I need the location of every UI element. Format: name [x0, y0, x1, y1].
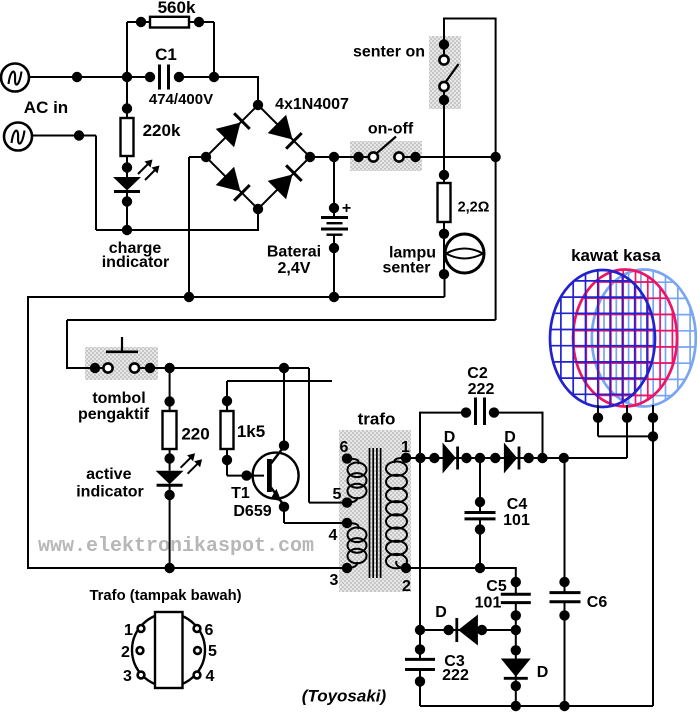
svg-text:active: active	[86, 466, 131, 483]
wire 1k5 feed from pushbutton net	[226, 381, 228, 411]
wire resistor to lamp	[443, 222, 445, 274]
node dot emitter	[279, 502, 289, 512]
wire pushbutton to 220/1k5/collector	[139, 367, 309, 369]
bridge diode bottom-left (1N4007)	[216, 167, 241, 192]
node dot 220k top	[122, 103, 132, 113]
svg-text:D: D	[444, 429, 456, 446]
svg-text:5: 5	[208, 643, 217, 660]
svg-text:www.elektronikaspot.com: www.elektronikaspot.com	[38, 535, 314, 558]
node dot pushbutton right	[145, 363, 155, 373]
node dot C1 right	[174, 72, 184, 82]
trafo pin 2	[401, 563, 411, 573]
node dot bottom rail C6	[559, 701, 569, 711]
capacitor C2 222	[474, 398, 477, 426]
svg-text:2: 2	[402, 578, 411, 595]
trafo pin 1	[401, 453, 411, 463]
svg-text:D659: D659	[233, 503, 271, 520]
bridge diode top-left (1N4007)	[216, 123, 241, 148]
svg-text:C6: C6	[587, 594, 608, 611]
svg-text:3: 3	[330, 572, 339, 589]
node dot 560k left	[136, 17, 146, 27]
node dot lower row right	[511, 625, 521, 635]
wire AC2 down	[95, 136, 97, 231]
battery tap wire	[333, 157, 335, 218]
node bridge right	[305, 152, 315, 162]
AC source bottom (AC in)	[4, 123, 32, 151]
on-off switch highlight box	[350, 141, 422, 171]
node dot battery bottom	[329, 243, 339, 253]
diode D (lower row, points left)	[458, 615, 478, 646]
capacitor C6	[550, 591, 581, 594]
svg-text:2,2Ω: 2,2Ω	[458, 200, 490, 216]
node dot bottom rail C5	[511, 701, 521, 711]
wire bridge left to DC- drop	[189, 156, 206, 158]
node dot on AC2 wire	[74, 130, 84, 140]
node dot collector junction on pushbutton net	[279, 363, 289, 373]
switch on-off terminal 1	[369, 152, 378, 161]
trafo bottom view pin 3	[138, 672, 145, 679]
AC source top (AC in)	[1, 64, 29, 92]
node dot right rail at on-off row	[490, 152, 500, 162]
trafo bottom view pin 5	[194, 647, 201, 654]
trafo bottom view pin 6	[194, 625, 201, 632]
resistor 220	[163, 411, 177, 449]
wire mesh terminal 3 / right HV vertical	[652, 405, 654, 706]
node dot DC- rail at battery	[329, 292, 339, 302]
svg-text:on-off: on-off	[368, 121, 414, 138]
bridge diode top-right (1N4007)	[268, 115, 293, 140]
node dot active LED cathode	[164, 490, 174, 500]
capacitor C4 101	[465, 511, 496, 514]
node dot collector	[279, 440, 289, 450]
diode D (vertical, points down)	[501, 659, 531, 677]
wire bottom rail y=706	[420, 705, 653, 707]
node dot active LED anode	[164, 453, 174, 463]
switch tombol pengaktif terminal 1	[103, 363, 112, 372]
node dot mesh terminal 1	[593, 413, 603, 423]
capacitor C5 101	[501, 593, 531, 596]
node dot DC- rail at bridge-left drop	[184, 292, 194, 302]
wire C2 branch	[420, 412, 466, 414]
svg-text:4: 4	[329, 527, 338, 544]
node dot 1k5 top	[222, 396, 232, 406]
svg-text:Trafo (tampak bawah): Trafo (tampak bawah)	[89, 588, 241, 604]
wire lower diode row y=630	[420, 629, 516, 631]
wire AC2 bottom run to bridge	[96, 229, 258, 231]
transformer primary winding upper (pins 6-5)	[347, 459, 359, 464]
wire 560k loop left vertical	[126, 22, 128, 77]
svg-text:C2: C2	[467, 365, 488, 382]
wire + rail y=320	[67, 319, 496, 321]
wire 220k to charge LED	[126, 156, 128, 177]
wire right rail vertical	[495, 18, 497, 321]
wire pushbutton net down to trafo pin 5	[308, 368, 310, 503]
wire diode row y=458	[406, 457, 627, 459]
svg-text:D: D	[504, 429, 516, 446]
svg-text:kawat kasa: kawat kasa	[571, 246, 661, 265]
svg-text:Baterai: Baterai	[267, 244, 321, 261]
trafo pin 5	[342, 497, 352, 507]
node dot 560k right	[194, 17, 204, 27]
node dot 1k5 bottom	[222, 455, 232, 465]
svg-text:4: 4	[206, 668, 215, 685]
node dot lamp top	[439, 229, 449, 239]
battery Baterai 2,4V plates	[321, 216, 348, 219]
node bridge bottom	[253, 204, 263, 214]
svg-text:1: 1	[124, 622, 133, 639]
node dot base wire	[241, 470, 251, 480]
trafo pin 6	[342, 453, 352, 463]
LED active indicator	[156, 471, 184, 485]
svg-text:indicator: indicator	[102, 254, 170, 271]
wire 560k loop top left	[127, 21, 150, 23]
node dot C6 top	[559, 577, 569, 587]
svg-text:220k: 220k	[143, 121, 181, 140]
bridge diode bottom-right (1N4007)	[268, 175, 293, 200]
svg-text:+: +	[342, 200, 351, 217]
node bridge left	[201, 152, 211, 162]
svg-text:222: 222	[442, 667, 469, 684]
trafo bottom view pin 4	[194, 672, 201, 679]
node dot right of C1	[209, 72, 219, 82]
wire left rail vertical	[27, 296, 29, 568]
svg-text:C4: C4	[507, 496, 528, 513]
svg-text:D: D	[435, 604, 447, 621]
wire battery negative down	[333, 235, 335, 297]
node junction at 220k top / 560k left	[122, 72, 132, 82]
wire collector up to pushbutton net	[283, 368, 285, 446]
trafo highlight box	[339, 430, 411, 592]
node dot on-off left (battery tap)	[329, 152, 339, 162]
transformer primary winding lower (pins 4-3)	[347, 523, 359, 529]
switch on-off terminal 2	[394, 152, 403, 161]
wire charge LED to AC2 net	[126, 192, 128, 230]
node dot on AC1 wire	[72, 72, 82, 82]
svg-text:senter: senter	[382, 260, 430, 277]
node dot C4 bottom terminal	[475, 524, 485, 534]
node dot lamp bottom	[439, 269, 449, 279]
svg-text:(Toyosaki): (Toyosaki)	[302, 687, 387, 706]
svg-text:220: 220	[181, 425, 209, 444]
svg-text:D: D	[537, 664, 549, 681]
node dot lower row left	[415, 625, 425, 635]
resistor 2,2 ohm	[438, 183, 451, 222]
wire lamp bottom to DC- rail	[444, 274, 446, 297]
node dot C3 bottom	[415, 676, 425, 686]
svg-text:AC in: AC in	[24, 98, 68, 117]
svg-text:tombol: tombol	[92, 390, 145, 407]
node dot 2,2ohm top	[439, 170, 449, 180]
wire top loop horizontal	[444, 18, 496, 20]
diode bridge 4x1N4007 frame	[206, 105, 310, 209]
switch senter-on terminal 2	[439, 82, 448, 91]
switch tombol pengaktif terminal 2	[130, 363, 139, 372]
svg-text:474/400V: 474/400V	[149, 91, 213, 108]
wire C6 branch	[564, 458, 566, 593]
wire trafo pin2 row y=568	[406, 567, 516, 569]
svg-text:C5: C5	[486, 578, 507, 595]
trafo bottom view pin 1	[138, 625, 145, 632]
wire mesh terminal 1	[597, 405, 599, 436]
wire bridge right to on-off row	[310, 156, 369, 158]
node dot C6 bottom	[559, 610, 569, 620]
node dot 220 top junction	[164, 363, 174, 373]
trafo bottom view body circle	[132, 614, 205, 687]
wire on-off right	[404, 156, 496, 158]
svg-text:560k: 560k	[158, 0, 196, 17]
svg-text:2,4V: 2,4V	[278, 260, 311, 277]
wire C5 branch down	[515, 567, 517, 594]
node dot on-off terminal left	[353, 152, 363, 162]
trafo bottom view pin 2	[137, 647, 144, 654]
wire C1 right to bridge top corner	[179, 76, 258, 78]
wire 560k loop top right	[189, 21, 214, 23]
node dot 220 top terminal	[164, 396, 174, 406]
senter on switch highlight box	[429, 36, 461, 109]
node dot charge LED cathode	[122, 196, 132, 206]
transformer secondary winding (pins 1-2)	[394, 458, 406, 463]
tombol pengaktif switch highlight box	[85, 347, 158, 380]
trafo pin 3	[342, 563, 352, 573]
lamp lampu senter	[445, 234, 484, 273]
svg-text:trafo: trafo	[358, 410, 396, 429]
svg-text:T1: T1	[231, 485, 250, 502]
svg-text:senter on: senter on	[353, 44, 425, 61]
wire active LED to bottom rail	[169, 486, 171, 568]
node dot lower diode anode	[477, 625, 487, 635]
svg-text:3: 3	[123, 668, 132, 685]
node dot pushbutton left	[90, 363, 100, 373]
svg-text:6: 6	[205, 622, 214, 639]
diode D (row, right)	[504, 443, 517, 474]
wire AC1 to C1 row	[29, 76, 150, 78]
svg-text:C1: C1	[155, 45, 177, 64]
wire 220k feed	[126, 77, 128, 118]
wire 220 feed	[169, 368, 171, 411]
node dots on diode row	[415, 453, 425, 463]
capacitor C3 222	[405, 658, 435, 661]
svg-text:1k5: 1k5	[237, 422, 265, 441]
resistor 1k5	[221, 411, 234, 449]
node dot C5 top	[511, 577, 521, 587]
svg-text:101: 101	[503, 512, 530, 529]
trafo pin 4	[342, 518, 352, 528]
svg-text:pengaktif: pengaktif	[78, 406, 150, 423]
wire 560k loop right vertical	[213, 22, 215, 77]
wire left output vertical x=420	[419, 458, 421, 659]
svg-text:5: 5	[333, 486, 342, 503]
diode D (row, left)	[443, 443, 456, 474]
node dot vertical diode top	[511, 645, 521, 655]
node dot C5 bottom	[511, 610, 521, 620]
svg-text:2: 2	[121, 644, 130, 661]
node dot charge LED bottom junction	[122, 225, 132, 235]
node dot on-off right	[410, 152, 420, 162]
wire emitter to trafo pin 4	[283, 507, 285, 523]
wire bottom rail y=568	[27, 567, 347, 569]
wire AC2 horizontal	[32, 135, 96, 137]
node dot senter-on top	[439, 39, 449, 49]
wire senter-on feed	[443, 18, 445, 56]
wire senter-on to lamp resistor	[443, 91, 445, 183]
wire C4 branch	[479, 458, 481, 513]
switch senter-on terminal 1	[439, 55, 448, 64]
node dot mesh terminal 2	[622, 413, 632, 423]
switch on-off lever	[377, 137, 396, 154]
node dot C2 right	[489, 407, 499, 417]
node dot active LED bottom junction	[164, 563, 174, 573]
resistor 220k	[121, 118, 134, 156]
node dot C4 bottom junction	[475, 563, 485, 573]
svg-text:101: 101	[475, 595, 502, 612]
node dot vertical diode bottom	[511, 681, 521, 691]
node dot charge LED anode	[122, 162, 132, 172]
node dot C2 left	[461, 407, 471, 417]
resistor 560k	[150, 17, 189, 28]
wire bridge bottom feed	[257, 209, 259, 231]
transistor T1 D659	[253, 453, 299, 499]
trafo bottom view core rectangle	[155, 612, 183, 688]
node dot battery +	[329, 203, 339, 213]
svg-text:222: 222	[468, 381, 495, 398]
node dot senter-on bottom	[439, 95, 449, 105]
wire DC- rail y=297	[27, 296, 445, 298]
wire mesh terminal 2	[626, 405, 628, 458]
node bridge top	[253, 100, 263, 110]
node dot lower diode cathode	[443, 625, 453, 635]
node dot C4 top terminal	[475, 497, 485, 507]
switch tombol pengaktif bar	[106, 350, 138, 353]
node dot mesh terminal 3	[648, 413, 658, 423]
svg-text:6: 6	[340, 439, 349, 456]
transformer trafo core	[369, 448, 371, 578]
node dot mesh join	[648, 431, 658, 441]
wire 1k5 to base	[226, 449, 228, 476]
node dot C3 top	[415, 644, 425, 654]
svg-text:indicator: indicator	[76, 484, 144, 501]
LED charge indicator	[113, 177, 141, 191]
wire 220 to active LED	[169, 449, 171, 471]
wire C5 bottom vertical to bottom rail	[515, 603, 517, 706]
switch senter-on lever	[446, 64, 459, 82]
capacitor C1 474/400V	[158, 65, 161, 90]
node dot C1 left	[145, 72, 155, 82]
svg-text:1: 1	[401, 439, 410, 456]
svg-text:4x1N4007: 4x1N4007	[275, 96, 349, 113]
wire + rail drop to pushbutton	[66, 320, 68, 369]
